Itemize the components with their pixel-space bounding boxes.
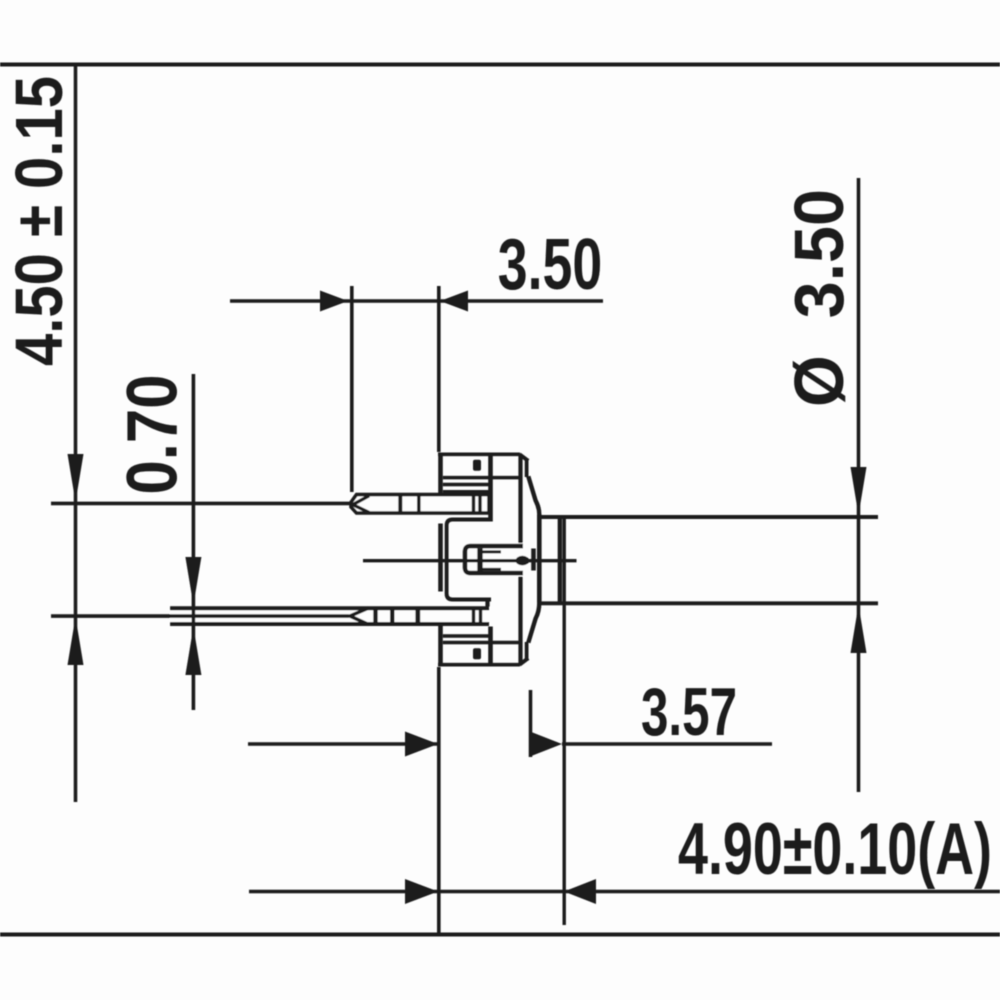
- svg-text:4.90±0.10(A): 4.90±0.10(A): [678, 809, 992, 890]
- svg-text:3.57: 3.57: [641, 675, 737, 750]
- svg-text:Ø 3.50: Ø 3.50: [780, 189, 858, 407]
- svg-text:3.50: 3.50: [498, 224, 602, 305]
- svg-text:4.50 ± 0.15: 4.50 ± 0.15: [2, 76, 77, 366]
- svg-text:0.70: 0.70: [114, 375, 193, 495]
